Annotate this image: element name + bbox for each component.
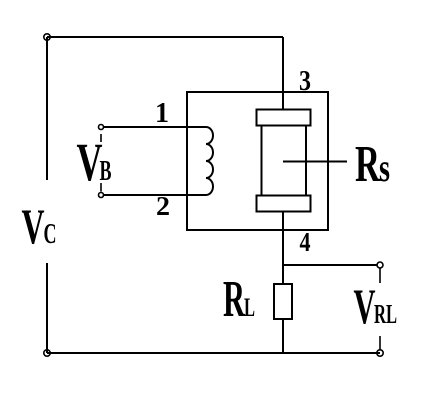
wire VB bottom stub [100,183,102,192]
wire bottom horizontal [47,352,380,354]
node terminal 1 [99,125,104,130]
wire Rs bottom vertical [282,212,284,285]
wire below RL [282,319,284,353]
wire top horizontal [47,36,283,38]
wire left upper vertical [46,37,48,180]
svg-text:R: R [223,271,246,328]
wire VB top stub [100,134,102,142]
wire terminal2 to coil [104,194,207,196]
node VRL top terminal [377,262,383,268]
svg-text:V: V [22,199,45,254]
svg-text:4: 4 [300,227,311,257]
node VRL bottom terminal [377,350,383,356]
coil L1 [206,127,213,195]
wire left lower vertical [46,263,48,353]
svg-text:s: s [379,145,390,190]
svg-text:1: 1 [155,98,169,129]
svg-text:L: L [244,293,255,322]
svg-text:R: R [355,136,381,193]
node terminal 2 [99,193,104,198]
wire VRL top stub [379,268,381,283]
wire top right vertical [282,37,284,110]
svg-text:3: 3 [299,66,311,97]
wire branch to VRL top [283,264,377,266]
svg-text:C: C [44,219,57,250]
svg-text:V: V [354,279,376,334]
wire VRL bottom stub [379,336,381,350]
wire terminal1 to coil [104,126,207,128]
svg-text:2: 2 [156,191,170,221]
node bottom left terminal [44,350,50,356]
svg-text:B: B [100,155,112,187]
wire Rs pointer line [283,161,347,163]
node top left terminal [44,34,50,40]
svg-text:RL: RL [374,299,397,329]
contact Rs bottom cap [257,196,311,212]
resistor RL [274,284,292,319]
relay box [187,92,328,230]
contact Rs top cap [257,110,311,126]
contact Rs body [262,126,307,196]
